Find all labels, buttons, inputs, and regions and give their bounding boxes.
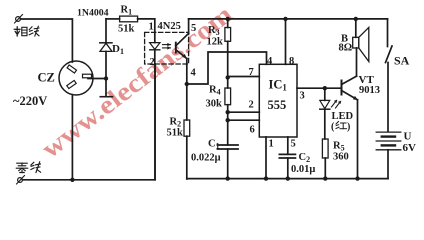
opto LED xyxy=(150,32,160,64)
wire pin7 xyxy=(228,76,260,78)
svg-text:4: 4 xyxy=(191,68,197,79)
svg-text:3: 3 xyxy=(300,91,305,102)
svg-text:SA: SA xyxy=(394,54,410,68)
resistor R1 xyxy=(120,16,138,22)
svg-text:6V: 6V xyxy=(403,142,417,154)
wire D1 to R1 xyxy=(106,18,120,20)
svg-text:1: 1 xyxy=(269,139,274,150)
svg-text:51k: 51k xyxy=(167,128,184,139)
svg-text:1: 1 xyxy=(149,22,154,33)
battery U xyxy=(376,132,401,179)
wire pin4 to 555 reset xyxy=(187,52,267,84)
svg-text:U: U xyxy=(404,131,412,143)
svg-text:): ) xyxy=(347,122,350,133)
svg-text:4: 4 xyxy=(267,56,273,67)
socket CZ xyxy=(59,61,93,95)
svg-text:CZ: CZ xyxy=(38,71,55,85)
node pins 2 junction xyxy=(226,110,230,114)
node pin6 junction xyxy=(226,118,230,122)
label 相线 xyxy=(14,26,39,36)
wire pin5 down xyxy=(287,137,289,154)
speaker B xyxy=(353,19,369,62)
svg-text:2: 2 xyxy=(150,57,155,68)
opto phototransistor xyxy=(176,33,189,64)
wire pin1 down xyxy=(265,137,267,179)
resistor R3 xyxy=(225,19,231,78)
wire socket right to D1 node xyxy=(88,78,106,80)
wire collector to speaker xyxy=(356,48,358,76)
ground rail right xyxy=(187,178,388,180)
node C1 rail xyxy=(226,176,230,180)
svg-text:30k: 30k xyxy=(206,99,223,110)
node R3 top xyxy=(226,17,230,21)
opto light arrows xyxy=(163,43,171,50)
IC1 555 box xyxy=(259,64,297,137)
node pin4 R2 xyxy=(185,82,189,86)
svg-text:IC1: IC1 xyxy=(269,78,288,93)
wire pin8 riser xyxy=(285,19,287,64)
wire pin3 xyxy=(297,87,342,89)
svg-text:0.022μ: 0.022μ xyxy=(191,153,221,164)
wire emitter down xyxy=(357,100,359,179)
vcc rail xyxy=(189,18,388,20)
node emitter rail xyxy=(355,176,359,180)
svg-text:9013: 9013 xyxy=(359,85,380,96)
label (red) xyxy=(331,122,350,133)
svg-text:5: 5 xyxy=(191,23,196,34)
svg-text:R4: R4 xyxy=(209,85,221,97)
svg-text:D1: D1 xyxy=(112,43,124,56)
switch SA xyxy=(386,19,393,132)
svg-text:R1: R1 xyxy=(121,5,133,17)
node pin8 xyxy=(283,17,287,21)
LED xyxy=(320,88,330,139)
wire pin4 down xyxy=(186,64,188,84)
LED arrows xyxy=(332,100,342,108)
node: live terminal xyxy=(15,15,23,24)
capacitor C2 xyxy=(279,154,295,178)
node C2 rail xyxy=(286,176,290,180)
svg-text:8: 8 xyxy=(289,56,294,67)
node R3 bottom xyxy=(226,75,230,79)
svg-text:8Ω: 8Ω xyxy=(339,43,353,54)
node pin1 rail xyxy=(264,176,268,180)
wire pin6 555 xyxy=(228,119,260,121)
diode D1 xyxy=(100,19,112,79)
svg-text:5: 5 xyxy=(291,139,296,150)
svg-text:LED: LED xyxy=(332,111,354,122)
node speaker rail xyxy=(354,17,358,21)
svg-text:51k: 51k xyxy=(118,24,135,35)
svg-text:C1: C1 xyxy=(208,139,220,151)
optocoupler 4N25 dashed box xyxy=(145,32,189,64)
node socket neutral xyxy=(70,178,74,182)
svg-text:6: 6 xyxy=(250,125,255,136)
svg-text:0.01μ: 0.01μ xyxy=(291,164,315,175)
transistor VT xyxy=(342,76,358,100)
neutral rail left xyxy=(23,64,156,180)
svg-text:4N25: 4N25 xyxy=(158,21,181,32)
svg-text:(: ( xyxy=(331,122,335,133)
label 零线 xyxy=(16,162,40,173)
wire pin2 555 xyxy=(228,111,260,113)
svg-text:1N4004: 1N4004 xyxy=(77,8,109,19)
wire pin5 riser xyxy=(188,19,190,34)
svg-text:7: 7 xyxy=(249,67,254,78)
svg-text:555: 555 xyxy=(268,98,287,112)
wire live top xyxy=(21,19,73,62)
neutral terminal xyxy=(17,176,25,185)
wire pin2 down xyxy=(154,64,156,180)
capacitor C1 xyxy=(218,145,239,179)
plug stub xyxy=(100,79,112,97)
wire R1 to pin1 xyxy=(138,19,155,33)
resistor R2 xyxy=(184,84,190,179)
node pin3 LED xyxy=(323,86,327,90)
resistor R5 xyxy=(322,139,328,179)
node R5 rail xyxy=(323,176,327,180)
resistor R4 xyxy=(225,78,231,146)
node D1 anode junction xyxy=(104,76,108,80)
svg-text:12k: 12k xyxy=(207,37,224,48)
svg-text:C2: C2 xyxy=(299,152,311,164)
svg-text:360: 360 xyxy=(333,152,349,163)
svg-text:2: 2 xyxy=(249,100,254,111)
wire socket bottom xyxy=(71,95,73,180)
svg-text:~220V: ~220V xyxy=(13,94,47,108)
